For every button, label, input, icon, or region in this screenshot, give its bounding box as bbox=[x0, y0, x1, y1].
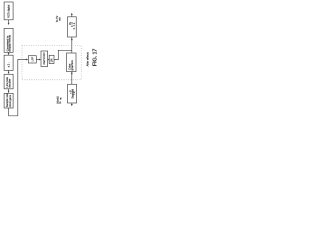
svg-text:Xtal VCXO: Xtal VCXO bbox=[43, 52, 46, 64]
floating label top middle bbox=[56, 15, 61, 22]
svg-text:4 - 1 s: 4 - 1 s bbox=[73, 22, 76, 29]
svg-text:LPF: LPF bbox=[31, 56, 34, 61]
wire B1-B2 bbox=[8, 20, 10, 25]
box A (LPF) bbox=[28, 56, 36, 63]
svg-text:doubler: doubler bbox=[8, 79, 12, 88]
arrowhead into box A bbox=[26, 59, 28, 61]
wire R1-R2 with arrowhead bbox=[71, 37, 73, 53]
dashed enclosure bbox=[22, 45, 81, 79]
box R3 bbox=[68, 84, 77, 103]
wire R2-R3 with arrowhead bbox=[71, 72, 73, 85]
box B5 bbox=[4, 93, 13, 108]
wire C to junction on R1-R2 line bbox=[54, 50, 72, 59]
box R1 bbox=[68, 17, 77, 37]
svg-text:display format: display format bbox=[7, 35, 11, 52]
wire B3-B4 bbox=[8, 70, 10, 74]
svg-text:x 2 :: x 2 : bbox=[7, 62, 10, 67]
floating label bottom middle bbox=[56, 96, 62, 104]
box B3 bbox=[4, 55, 13, 70]
svg-text:T.V.: T.V. bbox=[73, 91, 76, 95]
svg-text:1/N: 1/N bbox=[51, 58, 54, 62]
box B2 bbox=[4, 28, 13, 52]
output arrow down from R3 bbox=[71, 103, 73, 106]
box C (divider) bbox=[49, 55, 54, 63]
wire A-B with arrowhead bbox=[36, 59, 41, 61]
wire B2-B3 bbox=[8, 52, 10, 55]
box R2 bbox=[67, 53, 77, 72]
svg-text:set: set bbox=[58, 17, 61, 21]
svg-text:After effects: After effects bbox=[85, 51, 89, 66]
svg-text:VCR digital: VCR digital bbox=[6, 4, 10, 17]
dash gap bbox=[69, 45, 76, 47]
wire feedback loop B5 to box A bbox=[9, 60, 27, 116]
output arrow up from R1 bbox=[71, 13, 73, 17]
svg-text:clock gens: clock gens bbox=[8, 94, 12, 107]
wire B4-B5 bbox=[8, 89, 10, 93]
box B4 bbox=[4, 74, 13, 89]
box B1 top-left bbox=[4, 2, 13, 20]
svg-text:graphics: graphics bbox=[70, 60, 74, 71]
svg-text:FIG. 17: FIG. 17 bbox=[93, 49, 99, 67]
box VB (VCXO) bbox=[41, 51, 48, 67]
wire VB-C with arrowhead bbox=[48, 59, 50, 61]
background bbox=[0, 0, 99, 120]
